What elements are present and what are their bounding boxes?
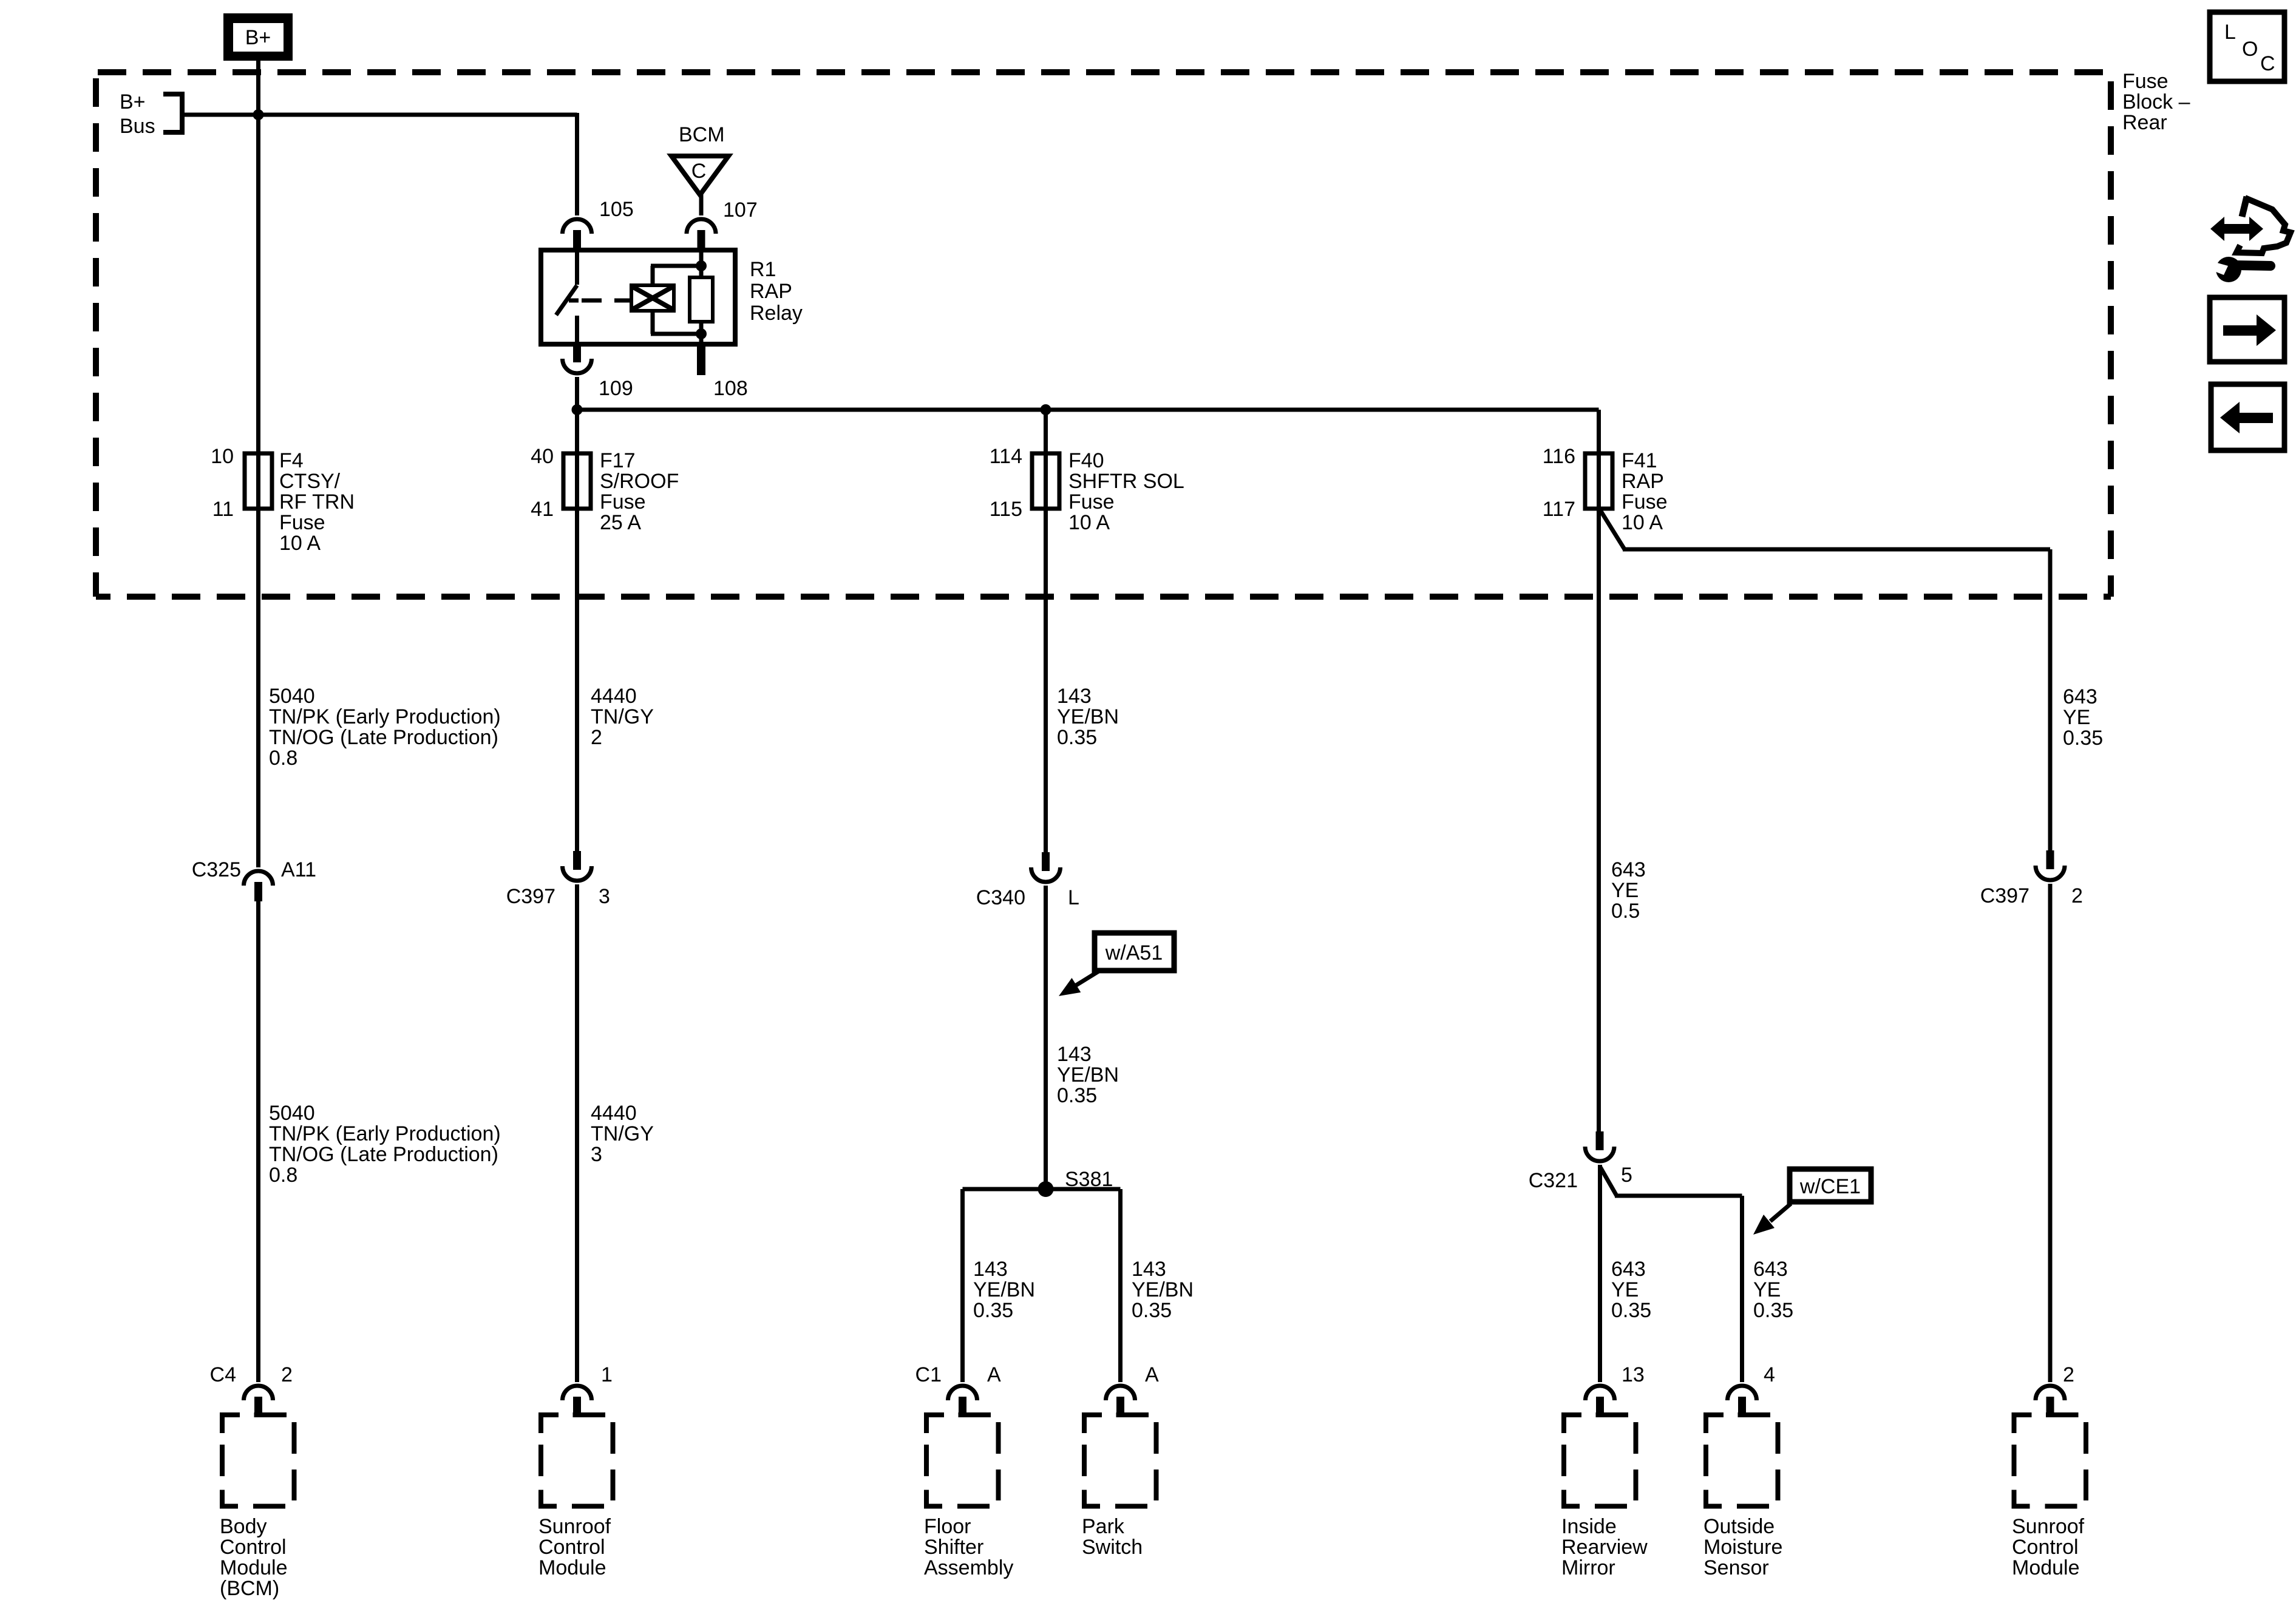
fuse F41 [1585,453,1612,509]
svg-text:Sunroof: Sunroof [538,1515,611,1538]
svg-text:Assembly: Assembly [924,1556,1013,1579]
svg-text:YE/BN: YE/BN [1057,1063,1119,1086]
service icon double arrow [2222,224,2252,234]
svg-text:5: 5 [1621,1164,1632,1187]
wire pin 109 down [575,377,579,453]
svg-text:B+: B+ [120,90,146,114]
fuse F4 [245,453,272,509]
svg-text:Sunroof: Sunroof [2012,1515,2085,1538]
branch wire from F41 pin 117 to right [1600,509,1625,549]
svg-text:TN/OG (Late Production): TN/OG (Late Production) [269,726,498,749]
svg-text:143: 143 [1132,1258,1166,1281]
wire C340 to S381 [1044,886,1048,1189]
Inside Rearview Mirror module box (dashed) [1564,1415,1636,1507]
connector C397 pin 2 [2036,866,2065,880]
svg-text:2: 2 [2071,884,2083,907]
w/A51 arrow [1073,971,1099,987]
svg-text:3: 3 [591,1143,602,1166]
svg-text:108: 108 [713,377,748,400]
svg-text:SHFTR SOL: SHFTR SOL [1068,470,1184,493]
wire C325 to BCM [256,901,260,1382]
svg-text:0.8: 0.8 [269,747,297,770]
svg-text:S/ROOF: S/ROOF [600,470,679,493]
svg-text:4440: 4440 [591,1102,637,1125]
wire F40 to C340 [1044,509,1048,853]
next page arrow box [2210,297,2284,362]
svg-text:10 A: 10 A [279,532,321,555]
svg-text:Bus: Bus [120,115,155,138]
svg-text:143: 143 [973,1258,1008,1281]
relay pin 109 connector [563,359,592,373]
svg-text:4440: 4440 [591,685,637,708]
wire C397 to sunroof module [575,884,579,1382]
svg-text:143: 143 [1057,1043,1092,1066]
svg-text:Switch: Switch [1082,1536,1143,1559]
svg-text:40: 40 [531,445,554,468]
relay R1 box [541,250,735,344]
svg-text:F4: F4 [279,449,304,472]
svg-text:0.35: 0.35 [2063,727,2103,750]
svg-text:R1: R1 [750,258,776,281]
w/CE1 callout box [1790,1169,1871,1202]
svg-text:C321: C321 [1529,1169,1578,1192]
wire F4 to C325 [256,509,260,867]
svg-text:TN/GY: TN/GY [591,1122,654,1145]
svg-text:0.35: 0.35 [973,1299,1013,1322]
svg-text:YE/BN: YE/BN [1132,1278,1194,1301]
svg-text:YE: YE [1611,1278,1639,1301]
svg-text:Module: Module [220,1556,288,1579]
svg-text:L: L [1068,886,1079,909]
svg-text:5040: 5040 [269,1102,315,1125]
svg-text:F17: F17 [600,449,636,472]
svg-text:B+: B+ [245,26,271,49]
svg-text:YE: YE [1753,1278,1781,1301]
branch to outside moisture sensor [1600,1167,1617,1196]
svg-text:41: 41 [531,498,554,521]
relay actuation dashed link [582,299,631,303]
relay pin 108 stub [697,344,705,375]
svg-text:3: 3 [599,885,610,908]
w/CE1 arrow [1770,1204,1791,1221]
connector pin 4 moisture sensor [1728,1386,1757,1400]
svg-text:Relay: Relay [750,302,803,325]
connector C340 pin L [1031,867,1061,882]
svg-text:0.35: 0.35 [1057,1084,1097,1107]
relay pin 107 connector [687,219,716,234]
svg-text:Rear: Rear [2122,111,2167,134]
connector pin 13 inside mirror [1586,1386,1615,1400]
svg-text:w/A51: w/A51 [1105,941,1163,964]
svg-text:C: C [691,160,707,183]
svg-text:A: A [1145,1363,1159,1386]
svg-text:Fuse: Fuse [1622,490,1668,514]
connector C1 pin A [948,1386,977,1400]
svg-text:C397: C397 [506,885,555,908]
node coil/resistor bottom [696,328,707,339]
wire B+ box down to F4 fuse [256,61,260,453]
connector C321 pin 5 [1585,1147,1614,1161]
svg-text:107: 107 [723,198,758,222]
connector C4 pin 2 [244,1386,273,1400]
wire C321 to inside mirror [1598,1165,1602,1382]
svg-text:143: 143 [1057,685,1092,708]
svg-text:0.35: 0.35 [1611,1299,1651,1322]
svg-text:YE/BN: YE/BN [973,1278,1035,1301]
svg-text:2: 2 [281,1363,293,1386]
svg-text:C1: C1 [915,1363,942,1386]
fuse F40 [1032,453,1059,509]
svg-text:109: 109 [599,377,633,400]
svg-text:2: 2 [2063,1363,2074,1386]
service icon outline [2242,197,2247,217]
svg-text:643: 643 [1753,1258,1788,1281]
svg-text:Shifter: Shifter [924,1536,983,1559]
svg-text:Fuse: Fuse [279,511,325,534]
svg-text:C397: C397 [1980,884,2029,907]
svg-text:10 A: 10 A [1068,511,1110,534]
relay pin 105 connector [563,219,592,234]
svg-text:10 A: 10 A [1622,511,1663,534]
svg-text:10: 10 [211,445,234,468]
svg-text:(BCM): (BCM) [220,1577,279,1600]
svg-text:TN/PK (Early Production): TN/PK (Early Production) [269,1122,501,1145]
svg-text:Fuse: Fuse [600,490,646,514]
Body Control Module module box (dashed) [222,1415,294,1507]
w/A51 callout box [1095,933,1174,971]
junction node F40 [1041,404,1051,415]
svg-text:w/CE1: w/CE1 [1799,1175,1861,1198]
svg-text:643: 643 [1611,858,1646,881]
svg-text:Rearview: Rearview [1561,1536,1648,1559]
svg-text:C4: C4 [210,1363,236,1386]
junction node below 109 [572,404,583,415]
svg-text:116: 116 [1543,445,1575,468]
wire BCM to pin 107 [699,192,704,215]
relay switch contact [575,250,579,285]
svg-text:F40: F40 [1068,449,1104,472]
svg-text:YE/BN: YE/BN [1057,705,1119,728]
svg-text:L: L [2224,21,2236,44]
connector pin 1 sunroof [563,1386,592,1400]
junction node B+ bus [253,109,264,120]
svg-text:643: 643 [1611,1258,1646,1281]
BCM signal triangle [671,156,729,195]
svg-text:Fuse: Fuse [2122,70,2169,93]
svg-text:0.35: 0.35 [1753,1299,1793,1322]
svg-text:Fuse: Fuse [1068,490,1115,514]
fuse F17 [563,453,591,509]
node coil/resistor top [696,260,707,271]
service icon wrench [2216,257,2241,282]
svg-text:11: 11 [212,498,234,521]
svg-text:Block –: Block – [2122,90,2190,114]
svg-text:Floor: Floor [924,1515,971,1538]
svg-text:114: 114 [990,445,1022,468]
svg-text:O: O [2242,38,2258,61]
LOC reference box [2210,12,2284,81]
svg-text:Module: Module [538,1556,606,1579]
split wires to C1 and park switch [963,1187,1121,1192]
connector C397 pin 3 [563,866,592,881]
svg-text:Moisture: Moisture [1703,1536,1782,1559]
svg-text:YE: YE [1611,879,1639,902]
B+ power feed box [223,13,293,61]
svg-text:Inside: Inside [1561,1515,1617,1538]
svg-text:Outside: Outside [1703,1515,1775,1538]
svg-text:643: 643 [2063,685,2097,708]
svg-text:Control: Control [220,1536,287,1559]
connector pin 2 sunroof right [2036,1386,2065,1400]
svg-text:25 A: 25 A [600,511,641,534]
svg-text:Control: Control [538,1536,605,1559]
svg-text:F41: F41 [1622,449,1657,472]
Sunroof Control Module module box (dashed) [541,1415,613,1507]
Outside Moisture Sensor module box (dashed) [1706,1415,1778,1507]
splice S381 [1038,1181,1054,1197]
Sunroof Control Module right module box (dashed) [2014,1415,2087,1507]
wire F17 to C397 [575,509,579,852]
fuse block rear dashed border [96,69,2111,75]
svg-text:0.5: 0.5 [1611,900,1640,923]
svg-text:117: 117 [1543,498,1575,521]
svg-text:5040: 5040 [269,685,315,708]
svg-text:CTSY/: CTSY/ [279,470,341,493]
svg-text:Sensor: Sensor [1703,1556,1769,1579]
svg-text:Body: Body [220,1515,267,1538]
Floor Shifter Assembly module box (dashed) [926,1415,999,1507]
svg-text:A: A [987,1363,1001,1386]
bus wire to F40 and F41 [577,408,1599,412]
previous page arrow box [2211,384,2284,450]
svg-text:A11: A11 [281,858,316,881]
svg-text:RAP: RAP [750,280,792,303]
svg-text:TN/PK (Early Production): TN/PK (Early Production) [269,705,501,728]
B+ Bus bracket [163,94,182,132]
svg-text:C325: C325 [192,858,241,881]
svg-text:RF TRN: RF TRN [279,490,355,514]
svg-text:Mirror: Mirror [1561,1556,1615,1579]
svg-text:0.35: 0.35 [1057,726,1097,749]
connector C325 pin A11 [244,871,273,886]
svg-text:105: 105 [599,198,634,221]
svg-text:115: 115 [990,498,1022,521]
svg-text:0.8: 0.8 [269,1164,297,1187]
svg-text:C: C [2260,52,2275,75]
svg-text:C340: C340 [976,886,1025,909]
svg-text:4: 4 [1764,1363,1775,1386]
svg-text:BCM: BCM [679,123,725,146]
coil leads [651,266,655,285]
svg-text:Control: Control [2012,1536,2079,1559]
wire C397-2 to sunroof module [2048,884,2053,1382]
Park Switch module box (dashed) [1084,1415,1156,1507]
svg-text:2: 2 [591,726,602,749]
svg-text:13: 13 [1622,1363,1645,1386]
wire B+ bus to relay pin 105 [181,113,577,117]
svg-text:0.35: 0.35 [1132,1299,1172,1322]
svg-text:1: 1 [601,1363,613,1386]
connector pin A park switch [1106,1386,1135,1400]
svg-text:YE: YE [2063,706,2090,729]
wire F41 to C321 [1597,509,1601,1132]
svg-text:TN/GY: TN/GY [591,705,654,728]
svg-text:TN/OG (Late Production): TN/OG (Late Production) [269,1143,498,1166]
svg-text:Module: Module [2012,1556,2080,1579]
relay resistor [690,277,713,322]
relay coil [631,285,674,311]
svg-text:RAP: RAP [1622,470,1664,493]
svg-text:Park: Park [1082,1515,1125,1538]
